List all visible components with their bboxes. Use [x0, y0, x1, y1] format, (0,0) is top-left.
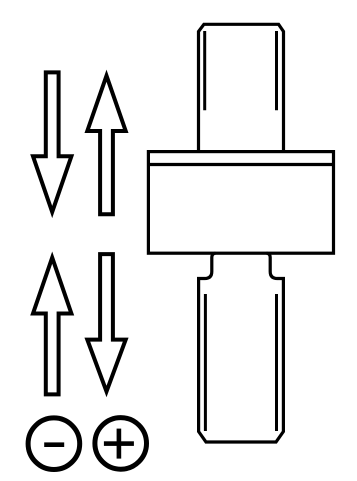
plus circle [95, 418, 147, 470]
upper cylinder outline [199, 24, 284, 152]
upper thread line left [203, 31, 206, 110]
flange rectangle [148, 152, 333, 254]
lower thread line left [204, 294, 207, 431]
arrow down (lower-right) [87, 254, 125, 391]
flange band line [148, 163, 333, 166]
arrow up (lower-left) [33, 258, 71, 395]
upper thread line right [275, 31, 278, 110]
arrow down (upper-left) [33, 72, 71, 212]
plus horizontal bar [104, 441, 134, 446]
lower thread line right [275, 294, 278, 431]
minus circle [28, 418, 80, 470]
minus bar [44, 442, 64, 447]
arrow up (upper-right) [87, 76, 125, 215]
lower shaft outline with neck undercut [199, 253, 284, 442]
plus vertical bar [117, 429, 122, 459]
